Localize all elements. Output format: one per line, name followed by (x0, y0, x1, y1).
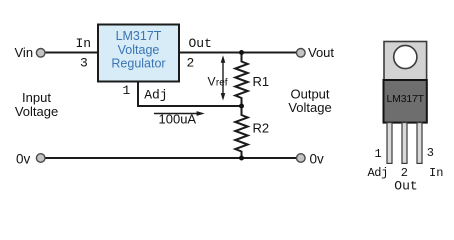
svg-text:Voltage: Voltage (15, 104, 58, 119)
svg-text:1: 1 (375, 147, 382, 161)
svg-text:Adj: Adj (368, 166, 388, 180)
svg-text:Adj: Adj (144, 88, 167, 103)
svg-text:LM317T: LM317T (116, 29, 162, 43)
svg-text:In: In (429, 166, 443, 180)
svg-text:Vref: Vref (208, 75, 228, 89)
svg-text:Out: Out (189, 36, 212, 51)
svg-text:R1: R1 (253, 74, 270, 89)
svg-text:Vout: Vout (308, 45, 334, 60)
svg-text:LM317T: LM317T (387, 93, 425, 105)
svg-text:0v: 0v (310, 152, 325, 167)
svg-text:3: 3 (80, 56, 88, 71)
svg-text:2: 2 (187, 56, 195, 71)
svg-text:Voltage: Voltage (288, 100, 331, 115)
svg-text:In: In (76, 36, 92, 51)
svg-text:100uA: 100uA (159, 112, 197, 127)
svg-text:Vin: Vin (15, 45, 34, 60)
svg-text:0v: 0v (16, 152, 31, 167)
svg-text:3: 3 (427, 146, 434, 160)
svg-text:R2: R2 (253, 120, 270, 135)
svg-text:Out: Out (394, 179, 417, 194)
svg-text:Regulator: Regulator (111, 56, 165, 70)
svg-text:Input: Input (22, 90, 51, 105)
svg-text:Voltage: Voltage (118, 43, 160, 57)
svg-text:1: 1 (123, 83, 131, 98)
